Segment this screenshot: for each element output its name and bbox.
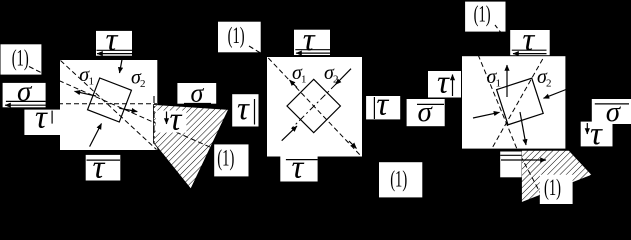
svg-text:(1): (1) [12,46,29,71]
svg-text:1: 1 [89,76,95,88]
svg-text:τ: τ [292,150,305,186]
arrow right into section C [501,159,546,161]
svg-text:σ: σ [17,76,33,108]
wire dashed tail (1)top C [495,25,502,34]
arrow bottom-left up-right A [90,124,102,147]
wire dashed steep trace L1 C [472,40,517,149]
label box tau bottom A [86,155,121,181]
svg-text:2: 2 [140,78,146,90]
label box tau-up left C [428,71,461,98]
arrow sigma1 up-left B [290,80,298,88]
label box tau top C [510,30,550,55]
svg-text:(1): (1) [228,23,245,48]
svg-text:τ: τ [170,102,183,138]
label box (1) bottom-right B [379,162,422,197]
hatched section triangle A [154,105,229,190]
label box small bottom C [500,152,521,178]
svg-text:1: 1 [301,73,307,85]
label box tau-down on section A [156,111,187,133]
label box sigma right A [177,83,216,104]
wire dashed diagonal (1) trace B [268,58,360,156]
svg-text:τ: τ [437,65,450,101]
svg-text:(1): (1) [544,175,561,200]
label box (1) top-left A [1,44,42,74]
svg-text:1: 1 [496,78,502,90]
wire dashed tail (1)top B [249,46,267,57]
svg-text:τ: τ [237,91,250,127]
label box (1) top B [218,22,261,53]
hatched section C [522,150,593,202]
arrow sigma2 inward from BL B [282,126,297,141]
arrow down C [520,112,526,145]
label box tau-down right C [581,122,613,147]
element diamond B [287,79,340,132]
svg-text:2: 2 [546,78,552,90]
label box tau left B [232,94,258,126]
arrow sigma2 inward left C [473,112,500,118]
panel C main white box [462,56,565,148]
wire dashed steep trace L2 C [491,59,543,150]
label box sigma-bar right C [592,99,631,124]
svg-text:τ: τ [93,150,106,186]
wire dashed principal trace (1) A [59,81,211,148]
svg-text:τ: τ [106,22,119,58]
svg-text:σ: σ [418,96,434,128]
svg-text:τ: τ [522,22,535,58]
label box tau bottom B [280,155,317,182]
element square A (rotated 21deg) [88,78,132,122]
label box (1) top C [465,2,505,32]
arrow sigma2 down A [120,60,123,74]
wire dashed tail from (1) A [29,67,41,73]
label box tau right B [366,96,400,119]
arrow sigma1 up C [506,65,508,97]
wire dashed diagonal corner trace A [61,61,157,150]
arrow right outward A [119,108,137,111]
node dash-dot left edge of section A [153,96,155,144]
node dash-dot axis TR-BL B [292,84,336,128]
arrow sigma1 up-left A [75,91,97,96]
label box tau top A [96,31,132,56]
svg-text:τ: τ [35,100,48,136]
label box sigma left A [3,83,46,107]
wire dashed trace L1 lower C [517,149,545,202]
element square C (rotated -18deg) [497,78,544,125]
wire dashed tail to (1) bottom B [362,157,390,175]
wire horizontal dashed centerline A [58,103,157,105]
label box tau top B [294,30,330,55]
svg-text:(1): (1) [474,1,491,26]
svg-text:(1): (1) [217,146,234,171]
label box (1) bottom C [540,175,573,204]
svg-text:τ: τ [590,116,603,152]
arrow sigma1 down-right B [349,141,357,149]
svg-text:2: 2 [333,73,339,85]
label box tau left A [24,110,60,135]
panel A main white box [60,60,157,150]
label box sigma-bar right B [407,99,445,126]
svg-text:τ: τ [376,87,389,123]
label box (1) bottom A [214,144,248,176]
arrow sigma2 inward from TR B [336,69,352,85]
arrow sigma2 inward right C [544,90,567,99]
panel B main white box [267,57,362,157]
svg-text:(1): (1) [390,167,407,192]
